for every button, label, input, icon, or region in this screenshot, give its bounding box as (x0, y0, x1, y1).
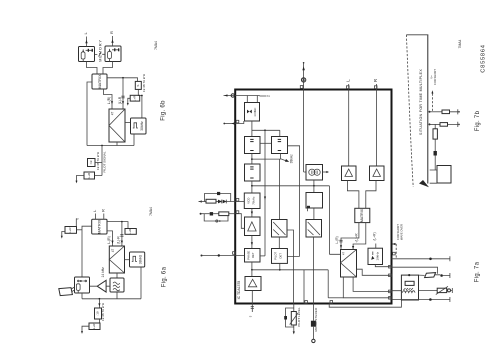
matching resistor R22 (433, 124, 437, 151)
svg-text:L+R: L+R (133, 95, 137, 101)
pin 16 supply terminal (300, 62, 306, 90)
svg-text:MEMORY: MEMORY (98, 39, 103, 62)
svg-text:L+R: L+R (128, 228, 132, 234)
wire U3 left to S/H line (82, 226, 92, 277)
svg-text:47: 47 (111, 249, 115, 253)
wire decoder K1 to switch box F1 (125, 122, 131, 124)
svg-text:76kHz: 76kHz (251, 196, 255, 205)
bus wire fig6a (82, 267, 141, 299)
bus end down (327, 270, 329, 298)
wire U4 left output to decoder K3 (339, 223, 359, 250)
node J15 (313, 185, 315, 187)
svg-text:(L)-R: (L)-R (117, 236, 121, 244)
svg-text:PILOT SIGNAL: PILOT SIGNAL (102, 151, 106, 172)
svg-text:38kHz: 38kHz (140, 121, 144, 131)
svg-text:R: R (100, 209, 105, 212)
svg-text:-(L)+R: -(L)+R (355, 233, 359, 243)
external row D (392, 297, 450, 302)
wire U3 right to label box and decoder (107, 222, 128, 229)
terminal L of U3 (92, 209, 97, 219)
node J2 (141, 95, 143, 97)
coincidence detector B1 (245, 96, 260, 122)
svg-text:IC TDA1578: IC TDA1578 (237, 281, 241, 300)
38kHz output of B5 right edge down to pilot detector (287, 146, 299, 257)
pin 12 wire to external (329, 300, 401, 307)
switch box F1 38kHz (131, 118, 147, 134)
sample box S1 (135, 81, 141, 89)
pin 2 input terminal with pad (224, 94, 271, 97)
pin 1 output terminal R (373, 78, 378, 89)
wire B1 bottom rail (252, 121, 280, 137)
svg-text:FOR SHORT: FOR SHORT (433, 69, 437, 85)
svg-text:DET: DET (251, 252, 255, 258)
svg-text:L-(R): L-(R) (107, 97, 111, 105)
svg-text:47: 47 (342, 252, 346, 256)
external row C (392, 286, 453, 294)
decoder K1 (109, 109, 125, 142)
svg-text:R: R (109, 31, 114, 34)
wire K2 to switch box F2 (125, 259, 130, 261)
wire U4 right output to decoder K3 (352, 223, 366, 250)
node J12 (251, 185, 253, 187)
reference box Q2 (306, 186, 323, 212)
node J10 (264, 129, 266, 131)
dash-dot link to pin 8 (392, 224, 403, 259)
node J14 (279, 269, 281, 271)
38kHz annotation arrow (281, 154, 294, 163)
pin 6 left wire (201, 252, 245, 257)
antenna mast (406, 35, 429, 188)
svg-text:VCO: VCO (246, 197, 250, 204)
wire matrix left side down to pilot bus (87, 82, 92, 146)
mechanical coupling between M1 and M2 (99, 52, 101, 56)
svg-text:SITUATION FOR TIME MULTIPLEX: SITUATION FOR TIME MULTIPLEX (419, 69, 423, 135)
svg-text:COINC: COINC (253, 108, 257, 117)
svg-text:38kHz: 38kHz (289, 154, 293, 163)
pilot level line from phase shifter P1 (287, 230, 294, 304)
amplifier A1 14kHz (90, 267, 111, 292)
svg-text:(L)-R: (L)-R (118, 96, 122, 104)
svg-text:DET: DET (278, 253, 282, 259)
wires amps down to matrix U4 (347, 181, 376, 209)
node J3 (101, 145, 103, 147)
svg-text:PILOT: PILOT (274, 252, 278, 260)
svg-text:C855864: C855864 (480, 44, 486, 73)
divider box D1 (88, 159, 103, 167)
internal bus (252, 269, 328, 271)
19kHz box to pin 9 (375, 265, 391, 267)
svg-text:7MA4: 7MA4 (149, 207, 153, 216)
wire B3 to B4 with rail (252, 181, 330, 193)
pilot tick input (76, 218, 80, 227)
svg-text:Fig. 6a: Fig. 6a (162, 266, 168, 287)
wire P1 to pilot det (278, 237, 280, 249)
wire B2 to B3 with tap to phase shifter (252, 154, 281, 220)
svg-text:S: S (136, 85, 140, 87)
pilot line down (101, 146, 103, 176)
svg-text:L-(R): L-(R) (107, 236, 111, 244)
wire S1 down to switch box (138, 89, 142, 118)
matrix box U2 (92, 74, 107, 89)
capacitor C20 (434, 151, 437, 166)
node J4 (121, 221, 123, 223)
amplifier B6 (245, 217, 261, 236)
pilot stub down (98, 299, 100, 308)
wire node J1 down to decoder K1 (121, 78, 124, 109)
wire M1 to matrix U2 (87, 62, 98, 75)
label box L+R fig6a (125, 228, 136, 234)
feeder label with arrow (430, 69, 438, 112)
wire bus to pin 11 (304, 270, 307, 304)
pilot detector B9 (272, 249, 288, 264)
wire matrix right output to sample box (107, 78, 138, 82)
svg-text:14 kHz: 14 kHz (101, 267, 105, 278)
svg-text:2: 2 (267, 95, 271, 97)
svg-text:Fig. 6b: Fig. 6b (161, 100, 167, 121)
bus join to pin row (328, 297, 343, 299)
pin 15 output terminal L (345, 79, 350, 90)
svg-text:WAVE OVER: WAVE OVER (399, 224, 403, 240)
external RC network N2 (200, 211, 245, 229)
input terminal box T1 (61, 227, 82, 239)
terminal R of U3 (100, 209, 105, 219)
external row A (392, 252, 450, 261)
connector tag at S/H input (59, 287, 75, 296)
node J5 (99, 298, 101, 300)
svg-text:V=: V= (430, 75, 434, 79)
svg-text::19: :19 (96, 311, 100, 316)
svg-text:MATRIX: MATRIX (98, 219, 102, 234)
svg-text:MONO/STEREO: MONO/STEREO (314, 307, 318, 331)
K3 output right (357, 269, 392, 275)
external RC network N1 (199, 192, 245, 204)
svg-text::19: :19 (89, 160, 93, 165)
divider B2 (245, 137, 261, 154)
divider box D3 (95, 308, 102, 319)
svg-text:L+R: L+R (68, 227, 72, 233)
external loop with R and coil (401, 274, 418, 300)
wire matrix bottom to decoder K1 (104, 89, 114, 109)
phase shifter P2 (306, 220, 322, 238)
phase detector B7 (245, 249, 261, 263)
svg-text:MATRIX: MATRIX (98, 74, 102, 89)
pin 5 stub bottom (249, 304, 254, 318)
matrix box U3 (92, 219, 107, 234)
svg-text:L+R: L+R (92, 323, 96, 329)
svg-text:(L+R): (L+R) (373, 232, 377, 240)
pin squares right edge (389, 265, 392, 299)
label box L+R (127, 95, 140, 106)
phase shifter P1 (272, 220, 288, 238)
terminal L' of M1 (83, 32, 88, 47)
terminal R' of M2 (109, 31, 114, 46)
decoder K3 (341, 250, 357, 278)
svg-text:7MA4: 7MA4 (154, 41, 158, 50)
svg-text:Fig. 7b: Fig. 7b (475, 110, 481, 131)
wire B6 to phase det B7 (251, 236, 253, 249)
switch box F2 38kHz (130, 252, 145, 267)
amplifier B8 (245, 270, 261, 304)
crystal network bottom (311, 304, 318, 343)
K3 bottom outputs to pins (343, 277, 391, 298)
wire B7 right to feedback line (260, 255, 265, 257)
svg-text:FOR SHORT: FOR SHORT (396, 224, 400, 240)
svg-text:7MA4: 7MA4 (458, 40, 462, 49)
amplifier box A2 (L) (342, 90, 357, 181)
VCO box B4 (244, 193, 260, 209)
svg-text:38kHz: 38kHz (139, 254, 143, 264)
external row B (392, 267, 450, 278)
current source box Q1 (304, 90, 329, 181)
svg-text:PHASE: PHASE (247, 250, 251, 259)
terminal box D2 L+R (76, 172, 103, 183)
terminal box D4 L+R (81, 319, 100, 334)
divider B3 (245, 164, 261, 181)
svg-text:MATRIX: MATRIX (360, 208, 364, 222)
IC boundary box U10 (235, 90, 391, 304)
matrix box U4 (355, 208, 370, 222)
divider B5 (272, 137, 288, 154)
svg-text:L+R: L+R (87, 172, 91, 178)
wire M2 to matrix U2 (103, 62, 113, 75)
wire J4 down to decoder K2 (120, 222, 123, 246)
node J11 (251, 158, 253, 160)
S/H memory box M2 (right channel) (102, 46, 121, 62)
oscillator box G1 (110, 278, 124, 292)
pin 4 left terminal (223, 120, 243, 124)
line P2 down to crystal pin (312, 237, 314, 304)
pilot level network bottom (284, 304, 301, 335)
feed resistor R21 (429, 122, 460, 127)
svg-text:19kHz: 19kHz (376, 251, 380, 260)
svg-text:47: 47 (111, 112, 115, 116)
node J13 (251, 269, 253, 271)
svg-text:19 38 76 kHz: 19 38 76 kHz (96, 151, 100, 170)
svg-text:Fig. 7a: Fig. 7a (475, 261, 481, 282)
wire pilot det bottom to bus (279, 263, 281, 269)
wire Q1 bottom to rail (313, 180, 315, 186)
S/H memory box M1 (left channel) (79, 47, 98, 62)
guy line dash-dot (406, 35, 413, 187)
pilot ref box 19kHz (368, 244, 383, 265)
feed resistor R20 (429, 109, 460, 114)
wire B2 to B5 (260, 142, 272, 144)
svg-text:L-(R): L-(R) (335, 236, 339, 243)
node J1 (122, 77, 124, 79)
sample and hold box S2 (75, 277, 90, 293)
wire K2 bottom to oscillator G1 (116, 273, 118, 278)
pilot bus wire (87, 134, 134, 146)
wire Q2 to phase shifter P2 (313, 208, 315, 220)
svg-text:PILOT LEVEL: PILOT LEVEL (297, 307, 301, 327)
rail end to decoder K3 left (329, 186, 340, 255)
decoder K2 (109, 246, 124, 273)
wire B4 to amp B6 (251, 209, 253, 218)
wire B7 bottom to bus (251, 262, 253, 270)
wire U3 bottom to decoder K2 (107, 231, 114, 246)
svg-text:19 38 76 kHz: 19 38 76 kHz (142, 73, 146, 92)
feedback line down to phase detector (264, 130, 266, 256)
tuner box (430, 166, 451, 184)
amplifier box A3 (R) (370, 90, 385, 181)
